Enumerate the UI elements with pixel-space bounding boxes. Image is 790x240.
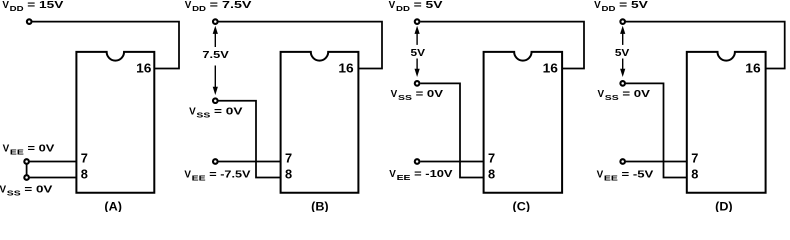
wire VSS terminal to pin 8 (section C): [420, 83, 483, 177]
svg-text:EE: EE: [192, 174, 206, 183]
terminal VEE (section A): [24, 159, 29, 164]
svg-text:(D): (D): [715, 200, 733, 212]
svg-text:8: 8: [488, 167, 495, 182]
svg-text:(C): (C): [513, 200, 531, 212]
terminal VDD (section D): [620, 19, 625, 24]
net label VEE = 0V (section A): [3, 143, 55, 156]
svg-text:EE: EE: [604, 174, 618, 183]
svg-text:SS: SS: [7, 189, 21, 198]
terminal VDD (section B): [213, 19, 218, 24]
svg-text:8: 8: [285, 167, 292, 182]
svg-text:V: V: [185, 0, 192, 11]
svg-text:SS: SS: [398, 93, 412, 102]
net label VEE = -5V (section D): [597, 169, 654, 182]
wire VDD terminal to pin 16 (section D): [626, 22, 785, 69]
svg-text:16: 16: [338, 61, 353, 76]
net label VEE = -7.5V (section B): [184, 169, 251, 182]
svg-text:V: V: [0, 184, 7, 195]
wire VSS terminal to pin 8 (section A): [27, 177, 77, 179]
svg-text:V: V: [2, 0, 9, 11]
wire VDD terminal to pin 16 (section A): [32, 22, 179, 69]
net label VDD = 15V (section A): [2, 0, 64, 13]
terminal VSS (section D): [620, 81, 625, 86]
dimension arrow up to VDD terminal (section D): [620, 26, 625, 45]
wire VSS terminal to pin 8 (section B): [219, 101, 281, 178]
wire joining VEE and VSS terminals (section A): [26, 162, 28, 178]
svg-text:7.5V: 7.5V: [202, 49, 228, 61]
svg-text:DD: DD: [192, 4, 206, 13]
svg-text:SS: SS: [196, 111, 210, 120]
terminal VEE (section C): [415, 159, 420, 164]
svg-text:V: V: [3, 143, 10, 154]
dimension arrow up to VDD terminal (section B): [213, 26, 218, 47]
svg-text:V: V: [598, 89, 605, 100]
net label VSS = 0V (section B): [189, 107, 243, 120]
svg-text:= -10V: = -10V: [414, 169, 453, 180]
net label VSS = 0V (section A): [0, 184, 53, 197]
svg-text:V: V: [389, 0, 396, 11]
svg-text:SS: SS: [605, 93, 619, 102]
svg-text:= 5V: = 5V: [414, 0, 444, 11]
net label VEE = -10V (section C): [389, 169, 453, 182]
svg-text:DD: DD: [396, 4, 410, 13]
svg-text:V: V: [389, 169, 396, 180]
net label VSS = 0V (section C): [391, 89, 444, 102]
net label VDD = 5V (section C): [389, 0, 443, 13]
svg-text:= 0V: = 0V: [622, 89, 650, 100]
svg-text:= 7.5V: = 7.5V: [210, 0, 252, 11]
net label VDD = 7.5V (section B): [185, 0, 252, 13]
IC U1 16-pin DIP body (section D): [687, 52, 766, 193]
svg-text:EE: EE: [397, 173, 411, 182]
svg-text:= 0V: = 0V: [24, 184, 53, 195]
svg-text:V: V: [184, 169, 191, 180]
net label VSS = 0V (section D): [598, 89, 651, 102]
terminal VSS (section C): [415, 81, 420, 86]
terminal VSS (section B): [213, 98, 218, 103]
svg-text:16: 16: [543, 61, 558, 76]
svg-text:5V: 5V: [411, 47, 426, 59]
dimension arrow down to VSS terminal (section D): [620, 59, 625, 78]
svg-text:V: V: [391, 89, 398, 100]
svg-text:8: 8: [81, 167, 88, 182]
svg-text:V: V: [189, 107, 196, 118]
terminal VDD (section C): [415, 19, 420, 24]
svg-text:= -7.5V: = -7.5V: [209, 169, 251, 180]
svg-text:16: 16: [745, 61, 760, 76]
IC U1 16-pin DIP body (section B): [281, 52, 359, 193]
wire VEE terminal to pin 7 (section B): [219, 161, 281, 163]
wire VEE terminal to pin 7 (section A): [27, 161, 77, 163]
svg-text:= 15V: = 15V: [27, 0, 64, 11]
wire VSS terminal to pin 8 (section D): [626, 83, 687, 177]
svg-text:7: 7: [488, 150, 495, 165]
wire VDD terminal to pin 16 (section C): [420, 22, 584, 69]
terminal VEE (section D): [620, 159, 625, 164]
svg-text:EE: EE: [10, 148, 24, 157]
dimension arrow down to VSS terminal (section C): [415, 59, 420, 78]
svg-text:(B): (B): [311, 200, 329, 212]
svg-text:DD: DD: [10, 4, 24, 13]
svg-text:8: 8: [691, 167, 698, 182]
IC U1 16-pin DIP body (section A): [76, 52, 154, 193]
wire VEE terminal to pin 7 (section C): [420, 161, 483, 163]
svg-text:(A): (A): [104, 200, 122, 212]
svg-text:16: 16: [136, 61, 151, 76]
terminal VEE (section B): [213, 159, 218, 164]
net label VDD = 5V (section D): [594, 0, 648, 13]
svg-text:= 0V: = 0V: [28, 143, 55, 154]
svg-text:7: 7: [285, 150, 292, 165]
wire VEE terminal to pin 7 (section D): [626, 161, 687, 163]
wire VDD terminal to pin 16 (section B): [219, 22, 383, 69]
IC U1 16-pin DIP body (section C): [484, 52, 562, 193]
svg-text:7: 7: [81, 150, 88, 165]
svg-text:= 0V: = 0V: [416, 89, 444, 100]
dimension arrow up to VDD terminal (section C): [415, 26, 420, 45]
svg-text:7: 7: [691, 150, 698, 165]
svg-text:= -5V: = -5V: [622, 169, 654, 180]
svg-text:V: V: [597, 169, 604, 180]
svg-text:5V: 5V: [615, 47, 630, 59]
svg-text:DD: DD: [602, 4, 616, 13]
terminal VSS (section A): [24, 175, 29, 180]
terminal VDD (section A): [27, 19, 32, 24]
svg-text:V: V: [594, 0, 601, 11]
dimension arrow down to VSS terminal (section B): [213, 66, 218, 96]
svg-text:= 5V: = 5V: [619, 0, 648, 11]
svg-text:= 0V: = 0V: [214, 107, 243, 118]
